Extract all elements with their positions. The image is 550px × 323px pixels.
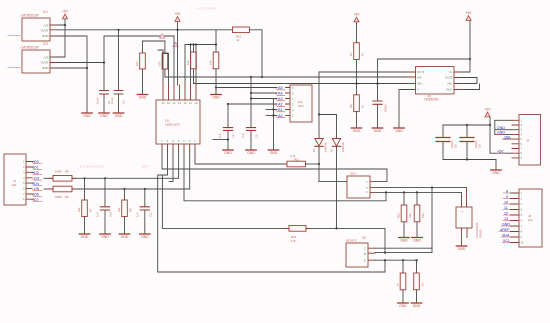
svg-text:100uF: 100uF	[474, 140, 478, 148]
capacitor C9	[460, 125, 482, 160]
svg-text:10k: 10k	[209, 60, 213, 65]
svg-text:C5: C5	[255, 134, 259, 138]
wire IC pins 5-7 columns and bar	[185, 45, 216, 86]
wire jog y114.5	[319, 114, 337, 116]
wire pin1 bottom long line y169	[162, 150, 387, 169]
svg-text:OUT2: OUT2	[445, 76, 453, 80]
wire pin7 bottom to R11 line	[195, 150, 287, 164]
svg-text:1uF: 1uF	[241, 133, 245, 138]
wire V+ to +5V	[462, 20, 471, 72]
wire D5 row into resistor	[44, 188, 53, 190]
node rail junction	[117, 29, 119, 31]
resistor R5 180R	[49, 170, 76, 182]
svg-text:GND: GND	[42, 34, 48, 38]
wire to ground G13	[495, 160, 497, 170]
svg-text:C4: C4	[232, 134, 236, 138]
svg-text:LM2904D: LM2904D	[424, 98, 439, 102]
wire IC pin1 pin2 columns	[158, 50, 169, 85]
svg-text:R8: R8	[129, 208, 133, 212]
resistor R7 vertical	[77, 178, 93, 233]
svg-text:1N4148: 1N4148	[324, 142, 328, 152]
+5V supply P1	[62, 10, 69, 19]
IC U5 top pin stubs	[163, 85, 196, 100]
capacitor C1	[100, 91, 109, 95]
wire VOUT rail y=29.8	[57, 29, 233, 31]
wire pin5 bottom long line y202	[184, 150, 386, 201]
net label D4	[32, 182, 42, 186]
svg-text:IC5: IC5	[427, 94, 432, 98]
svg-text:D2: D2	[330, 148, 334, 152]
wire IC pin3 column	[173, 36, 175, 85]
svg-text:+5V: +5V	[497, 150, 504, 154]
net label GND J4a	[497, 126, 506, 130]
ground G4	[137, 95, 147, 100]
ground G7	[223, 150, 233, 155]
svg-text:4.7k: 4.7k	[291, 239, 297, 243]
resistor R1	[135, 41, 145, 94]
svg-text:IC1: IC1	[43, 10, 48, 14]
diode D2 column	[336, 115, 338, 229]
voltage regulator IC1	[8, 10, 57, 41]
net label A0	[266, 114, 285, 118]
svg-text:1uF: 1uF	[218, 133, 222, 138]
+5V supply P5	[485, 108, 492, 117]
capacitor C6 col 377	[373, 59, 388, 128]
ground G1	[82, 113, 92, 118]
svg-text:C2: C2	[122, 100, 126, 104]
capacitor C10	[96, 178, 113, 233]
svg-text:IN1+: IN1+	[417, 82, 423, 86]
svg-text:10: 10	[504, 200, 508, 204]
+5V supply P2	[175, 12, 182, 21]
+5V supply P4 top right	[466, 11, 473, 20]
svg-text:BC547C: BC547C	[346, 239, 357, 243]
capacitor C8	[436, 125, 458, 160]
divider column resistor R5	[349, 22, 365, 95]
svg-text:C10: C10	[109, 212, 113, 217]
ground G22	[140, 234, 150, 239]
svg-text:10x: 10x	[528, 218, 533, 222]
svg-text:0.1uF: 0.1uF	[110, 97, 114, 104]
svg-text:100nF: 100nF	[384, 104, 388, 112]
wire R1-R2 top bar	[143, 40, 165, 42]
svg-text:R6: R6	[65, 195, 69, 199]
svg-text:C11: C11	[149, 212, 153, 217]
ground G20	[100, 234, 110, 239]
svg-text:GND: GND	[502, 222, 510, 226]
svg-text:10k: 10k	[421, 213, 425, 218]
svg-text:SCL: SCL	[503, 239, 510, 243]
svg-text:GND: GND	[497, 131, 505, 135]
resistor R12	[397, 192, 413, 237]
resistor R6 180R	[49, 186, 76, 199]
svg-text:R8: R8	[349, 104, 353, 108]
IC U5 top pin numbers	[162, 101, 198, 105]
svg-text:SDA: SDA	[502, 233, 510, 237]
svg-text:IN1-: IN1-	[417, 76, 422, 80]
svg-text:CSTCE16M0: CSTCE16M0	[475, 222, 479, 238]
net label A1	[266, 108, 285, 112]
svg-text:+VS: +VS	[43, 23, 49, 27]
wire Q2 collector to col432	[375, 247, 432, 249]
ground G8	[246, 150, 256, 155]
wire y36 branch	[104, 35, 174, 37]
svg-text:100uF: 100uF	[450, 140, 454, 148]
net label SCL	[502, 239, 510, 243]
divider resistor R6 lower	[349, 95, 365, 128]
svg-text:V53-R0: V53-R0	[479, 229, 483, 238]
resistor R15	[396, 260, 406, 302]
svg-text:D 3 L E D A N O D E: D 3 L E D A N O D E	[80, 165, 104, 169]
resistor R11 horizontal	[283, 154, 306, 167]
svg-text:10k: 10k	[77, 207, 81, 212]
capacitor col 251	[241, 77, 259, 150]
op-amp IC5 LM2904	[408, 67, 462, 102]
svg-text:+ +: + +	[460, 211, 464, 214]
wire Q2 emitter row y260.2	[375, 259, 418, 261]
resistor R16	[414, 260, 425, 302]
wire R11 out to diode column	[306, 163, 320, 165]
net label D7	[32, 198, 42, 202]
net label D1	[32, 166, 42, 170]
diode D2	[330, 139, 346, 153]
svg-text:E: E	[364, 259, 366, 263]
node VOUT2 junction	[103, 61, 105, 63]
svg-text:180R: 180R	[55, 170, 62, 174]
ground G21	[119, 234, 129, 239]
wire pin2 bottom to left columns	[158, 150, 168, 272]
+5V chevron on R bar	[160, 34, 165, 38]
diode D1 column	[318, 72, 320, 182]
svg-text:GND: GND	[497, 126, 505, 130]
resistor R4	[209, 30, 219, 94]
resistor R3	[186, 45, 196, 84]
svg-text:IC2: IC2	[43, 42, 48, 46]
wire cap rails	[443, 117, 496, 160]
resistor R13	[414, 192, 425, 237]
wire OK1 pin2 to crystal left pin	[377, 188, 462, 253]
svg-text:0.1uF: 0.1uF	[96, 97, 100, 104]
net label A5	[216, 86, 285, 90]
node +VS junction	[64, 24, 66, 26]
wire IC GND bus	[57, 36, 87, 113]
net label 12	[503, 211, 510, 215]
wire OK1 pin4 up to y169 line	[377, 169, 387, 182]
net label AREF	[499, 228, 510, 232]
resistor R10 1k horizontal	[233, 27, 250, 42]
ground G10	[351, 128, 361, 133]
wire col 273.5	[273, 99, 275, 150]
ground G18	[411, 303, 421, 308]
svg-text:C: C	[364, 247, 366, 251]
svg-text:LM51A373: LM51A373	[165, 123, 180, 127]
IC U5 bottom pin numbers	[161, 139, 196, 143]
svg-text:Q2: Q2	[362, 236, 366, 240]
svg-text:10k: 10k	[117, 207, 121, 212]
ground G2	[99, 113, 109, 118]
ground G17	[398, 303, 408, 308]
connector SV1 analog header	[286, 85, 313, 122]
wire OUT2 feedback loop	[462, 78, 478, 84]
ground G16	[456, 246, 466, 251]
svg-text:R7: R7	[89, 208, 93, 212]
wire pin4 bottom to D3 line	[72, 150, 179, 178]
svg-text:J4: J4	[526, 139, 529, 143]
net label GND J3	[501, 222, 510, 226]
+5V chevron 2	[173, 42, 178, 46]
wire LM358 V- pin to ground	[399, 90, 408, 128]
svg-text:10k: 10k	[186, 60, 190, 65]
svg-text:1uF: 1uF	[96, 212, 100, 217]
wire R10 out to col 262	[250, 30, 263, 77]
IC U5 bottom pin stubs	[162, 144, 195, 150]
net label D6	[32, 193, 42, 197]
svg-text:V-: V-	[417, 88, 420, 92]
connector J4	[512, 115, 541, 166]
net label 8	[503, 189, 510, 193]
capacitor C2	[114, 91, 123, 95]
main IC U5	[156, 100, 200, 144]
wire IN1- line y77	[165, 76, 408, 78]
net label 10	[503, 200, 510, 204]
svg-text:N E T: N E T	[142, 165, 149, 169]
capacitor C11	[136, 189, 153, 234]
svg-text:10k: 10k	[12, 183, 17, 187]
resistor R14 horizontal	[285, 226, 310, 243]
svg-text:10k: 10k	[157, 61, 161, 66]
wire pin3 bottom stub	[169, 150, 173, 182]
wire OK1 pin3 to crystal	[377, 187, 467, 189]
ground G11	[372, 128, 382, 133]
connector J1 digital	[4, 154, 32, 205]
wire cap column C1	[103, 36, 105, 113]
net label D0	[32, 160, 42, 164]
svg-text:SV2: SV2	[298, 104, 304, 108]
resistor R8 vertical	[117, 189, 133, 234]
wire IN1+ line y83.5	[194, 83, 409, 85]
svg-text:9: 9	[506, 195, 508, 199]
svg-text:C9: C9	[478, 144, 482, 148]
ground G12	[394, 128, 404, 133]
wire Q2 base to col432	[375, 252, 432, 254]
net label 11	[503, 206, 510, 210]
wire R14 line y228.4	[162, 228, 385, 252]
wire long bottom y272	[158, 260, 385, 272]
net label +5V J4	[497, 150, 505, 154]
optocoupler OK1	[347, 172, 377, 199]
wire OUT1 line y72	[319, 71, 408, 73]
wire D1 to optocoupler	[319, 181, 347, 183]
wire pin6 bottom to D5 line	[72, 150, 190, 189]
wire IN2+ stub	[462, 84, 480, 90]
net label A2	[227, 103, 285, 107]
net label A3	[250, 97, 285, 101]
svg-text:8: 8	[506, 189, 508, 193]
wire J4 rows 1,3,4	[495, 120, 512, 139]
wire y59 to +5V column	[378, 58, 471, 60]
ground G5 under R4	[211, 95, 221, 100]
svg-text:+VS: +VS	[43, 55, 49, 59]
net label GND J4b	[497, 131, 506, 135]
svg-text:R5: R5	[65, 170, 69, 174]
svg-text:10k: 10k	[135, 61, 139, 66]
svg-text:IN2-: IN2-	[447, 82, 452, 86]
connector J3	[511, 189, 543, 247]
svg-text:OUT1: OUT1	[417, 70, 425, 74]
capacitor bank GND row mid: col 228	[218, 104, 236, 150]
svg-text:V C C 5 V R A I L: V C C 5 V R A I L	[197, 7, 217, 11]
svg-text:AREF: AREF	[500, 228, 510, 232]
svg-text:13: 13	[504, 217, 508, 221]
wire +5V to J4 pin 8	[490, 152, 512, 154]
voltage regulator IC2	[8, 42, 57, 73]
wire D3 row into resistor	[44, 177, 53, 179]
svg-text:180R: 180R	[55, 195, 62, 199]
ground GND symbol below pin wires near IC top-right	[215, 88, 217, 95]
svg-text:LM7805CSP: LM7805CSP	[21, 45, 39, 49]
ground G3	[113, 113, 123, 118]
svg-text:OK1: OK1	[350, 172, 356, 176]
net label 15A	[504, 135, 512, 139]
svg-text:LM7805CSP: LM7805CSP	[21, 13, 39, 17]
+5V supply P3	[354, 13, 361, 22]
svg-text:GND: GND	[42, 66, 48, 70]
svg-text:B: B	[364, 252, 366, 256]
svg-text:12: 12	[504, 211, 508, 215]
net label 9	[503, 195, 510, 199]
svg-text:11: 11	[504, 206, 508, 210]
svg-text:R12: R12	[397, 213, 401, 218]
wire IC2 VOUT	[57, 62, 104, 64]
transistor Q2	[346, 236, 375, 268]
wire IC1 +VS to +5V	[57, 19, 65, 57]
net label D2	[32, 171, 42, 175]
svg-text:VOUT: VOUT	[41, 29, 49, 33]
diode D1	[312, 139, 328, 153]
svg-text:10k: 10k	[408, 213, 412, 218]
svg-text:IN2+: IN2+	[447, 88, 453, 92]
net label SDA	[501, 233, 510, 237]
wire stub y139.5	[213, 139, 228, 141]
net label A4	[250, 92, 285, 96]
svg-text:VOUT: VOUT	[41, 61, 49, 65]
net label 13	[503, 217, 510, 221]
wire cap column C2	[118, 30, 120, 113]
node A5 tap	[215, 86, 217, 88]
crystal Q1	[456, 188, 483, 246]
svg-text:C8: C8	[454, 144, 458, 148]
resistor R2	[157, 41, 167, 77]
ground G19	[79, 234, 89, 239]
wire +5V column to IC pin4	[177, 21, 179, 85]
net label D5	[32, 187, 42, 191]
node GND junction	[86, 67, 88, 69]
ground G14	[399, 238, 409, 243]
svg-text:D1: D1	[312, 148, 316, 152]
ground G9	[268, 150, 278, 155]
svg-text:R7: R7	[349, 52, 353, 56]
svg-text:1uF: 1uF	[136, 212, 140, 217]
svg-text:1N4148: 1N4148	[341, 142, 345, 152]
net label D3	[32, 177, 42, 181]
svg-text:V+: V+	[449, 70, 453, 74]
ground G15	[412, 238, 422, 243]
svg-text:R11: R11	[294, 157, 299, 161]
